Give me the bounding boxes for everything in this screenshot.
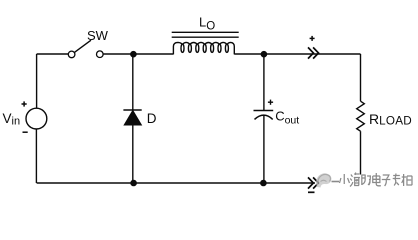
source plus sign bbox=[22, 101, 27, 106]
wire diode branch upper bbox=[132, 54, 134, 110]
voltage source Vin bbox=[26, 108, 47, 129]
wire left rail lower bbox=[35, 129, 37, 183]
char 子 bbox=[382, 175, 391, 186]
wire capacitor branch lower bbox=[263, 115, 265, 183]
plus sign top-right bbox=[310, 36, 315, 41]
wire right rail down to resistor bbox=[360, 54, 362, 101]
svg-text:D: D bbox=[147, 111, 157, 126]
wire switch to inductor bbox=[103, 53, 173, 55]
wire capacitor branch upper bbox=[263, 54, 265, 111]
svg-text:RLOAD: RLOAD bbox=[369, 111, 412, 128]
wire top-left horizontal bbox=[37, 53, 69, 55]
capacitor plus sign bbox=[268, 100, 273, 105]
svg-text:SW: SW bbox=[87, 28, 109, 43]
resistor RLOAD zigzag bbox=[357, 101, 365, 131]
char 专 bbox=[393, 174, 401, 186]
minus sign bottom-right bbox=[308, 191, 315, 193]
source minus sign bbox=[23, 131, 28, 133]
wire inductor to top-right corner bbox=[234, 53, 360, 55]
node junction top at diode bbox=[130, 51, 137, 58]
wire resistor to bottom bbox=[360, 131, 362, 183]
inductor LO coil bbox=[173, 42, 234, 54]
watermark CJK characters (hand-drawn strokes) bbox=[340, 173, 413, 187]
char 电 bbox=[373, 173, 381, 186]
wire left rail upper bbox=[36, 54, 38, 108]
output current arrow bottom bbox=[308, 177, 319, 188]
diode D bbox=[123, 110, 141, 125]
char 柜 bbox=[402, 174, 412, 186]
watermark background box bbox=[321, 175, 418, 194]
wire diode branch lower bbox=[132, 125, 134, 184]
node junction bottom at capacitor bbox=[260, 180, 267, 187]
char 小 bbox=[340, 174, 350, 184]
watermark seal logo bbox=[316, 173, 331, 187]
inductor LO core lines bbox=[172, 32, 239, 37]
svg-text:Vin: Vin bbox=[3, 111, 21, 128]
char 海 bbox=[350, 173, 360, 187]
svg-text:Cout: Cout bbox=[275, 108, 299, 126]
wire bottom rail bbox=[37, 182, 315, 184]
capacitor Cout plates bbox=[254, 111, 274, 120]
node junction bottom at diode bbox=[130, 180, 137, 187]
watermark text dash bbox=[332, 181, 340, 183]
char 豹 bbox=[361, 175, 370, 185]
node junction top at capacitor bbox=[261, 51, 268, 58]
switch SW bbox=[68, 40, 103, 58]
output current arrow top bbox=[308, 47, 319, 58]
svg-text:LO: LO bbox=[199, 14, 215, 32]
